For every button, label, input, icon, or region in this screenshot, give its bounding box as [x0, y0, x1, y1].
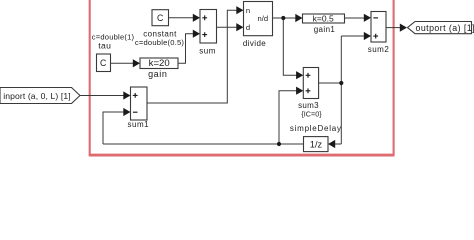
svg-text:simpleDelay: simpleDelay	[290, 124, 342, 133]
svg-text:tau: tau	[98, 40, 111, 50]
svg-text:n: n	[246, 6, 250, 15]
svg-text:d: d	[246, 23, 250, 32]
divide block	[243, 2, 273, 48]
sum block	[199, 10, 216, 56]
svg-text:c=double(0.5): c=double(0.5)	[135, 38, 185, 47]
red subsystem border	[89, 0, 395, 156]
svg-text:{IC=0}: {IC=0}	[301, 110, 322, 119]
constant C (tau)	[97, 54, 111, 72]
svg-text:C: C	[100, 58, 107, 68]
simpleDelay 1/z block	[304, 137, 329, 152]
junction divide out	[281, 16, 285, 20]
svg-text:k=0.5: k=0.5	[313, 14, 334, 24]
svg-text:sum2: sum2	[368, 45, 390, 54]
wire tau C to gain	[111, 62, 134, 64]
svg-text:C: C	[157, 13, 164, 23]
wire sum1 to divide n	[147, 10, 237, 103]
wire sum3 out: junction, up to sum2 in2, down to 1/z	[319, 36, 365, 144]
svg-text:1/z: 1/z	[310, 139, 323, 149]
wire constant C to sum in1	[169, 17, 194, 19]
wire divide out to gain1, junction to sum3 in1	[273, 18, 297, 75]
constant C (top)	[152, 10, 169, 26]
gain k=20	[140, 58, 178, 79]
svg-text:inport (a, 0, L) [1]: inport (a, 0, L) [1]	[3, 91, 70, 101]
svg-text:outport (a) [1]: outport (a) [1]	[416, 23, 474, 33]
sum1 block	[128, 87, 150, 129]
wire gain1 to sum2 in1	[345, 17, 365, 19]
label tau constant	[92, 32, 135, 50]
svg-text:sum1: sum1	[128, 120, 150, 129]
svg-text:gain1: gain1	[314, 25, 336, 34]
junction 1/z out	[277, 142, 281, 146]
wire gain to sum in2	[178, 34, 194, 64]
sum2 block	[368, 12, 390, 55]
wire sum to divide d	[217, 26, 238, 28]
outport (a) [1]	[408, 22, 474, 34]
svg-text:k=20: k=20	[149, 58, 170, 69]
svg-text:n/d: n/d	[258, 14, 269, 23]
svg-text:divide: divide	[243, 39, 266, 48]
gain1 k=0.5	[303, 14, 345, 34]
wire sum2 to outport	[386, 27, 401, 29]
inport (a, 0, L) [1]	[0, 88, 80, 104]
svg-text:gain: gain	[148, 69, 167, 79]
svg-text:sum: sum	[199, 46, 216, 55]
sum3 block	[290, 68, 342, 133]
labels constant	[135, 29, 185, 47]
junction sum3 out	[339, 81, 343, 85]
wire 1/z out: left, junction up to sum3 in2, feedback to sum1 in2	[103, 91, 304, 144]
wire inport to sum1	[80, 95, 124, 97]
